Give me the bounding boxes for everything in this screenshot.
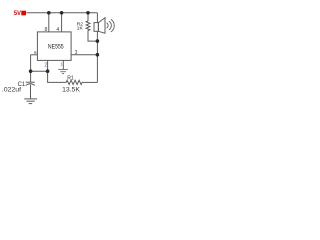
wire R2 top lead — [87, 13, 89, 21]
wire speaker top lead — [96, 13, 98, 23]
speaker LS1 cone — [98, 18, 105, 34]
node junction dot pin8 rail — [47, 11, 51, 15]
wire Vcc stub pin4 — [61, 13, 63, 32]
svg-text:8: 8 — [45, 27, 48, 33]
node junction dot pin4 rail — [60, 11, 64, 15]
wire left vertical pin6 to C1 — [30, 55, 32, 82]
node junction dot pin2 tie — [46, 69, 50, 73]
node junction dot R2 rail — [86, 11, 90, 15]
wire pin6 stub — [31, 54, 38, 56]
wire pin2 down to R1 — [48, 71, 67, 82]
wire R1 right lead — [82, 81, 97, 83]
svg-text:1K: 1K — [77, 25, 84, 31]
power 5V terminal square — [21, 11, 26, 16]
node junction dot pin3/speaker — [96, 53, 100, 57]
wire pin2 stub — [47, 60, 49, 71]
svg-text:.022uf: .022uf — [2, 88, 22, 94]
node junction dot R2/speaker — [96, 39, 100, 43]
ground pin1 bar1 — [58, 69, 68, 71]
capacitor C1 curved plate — [26, 84, 35, 86]
wire 5V rail — [26, 12, 97, 14]
ground pin1 bar3 — [62, 73, 64, 75]
resistor R1 — [66, 80, 82, 84]
svg-text:13.5K: 13.5K — [62, 86, 81, 93]
wire right vertical speaker to R1 — [96, 31, 98, 82]
speaker LS1 driver box — [94, 23, 98, 32]
ground C1 bar2 — [27, 100, 35, 102]
svg-text:5V: 5V — [14, 11, 21, 17]
resistor R2 — [86, 21, 90, 30]
wire R2 bottom lead — [88, 30, 97, 41]
wire pin1 stub — [62, 60, 64, 69]
wire pin2-pin6 tie — [31, 70, 48, 72]
wire C1 bottom lead — [30, 85, 32, 99]
svg-text:R1: R1 — [67, 76, 74, 82]
op-amp U1 NE555 box — [37, 32, 71, 61]
svg-text:6: 6 — [34, 50, 37, 55]
svg-text:1: 1 — [60, 62, 63, 67]
node junction dot pin6 tie — [29, 69, 33, 73]
speaker LS1 sound wave large — [111, 19, 114, 32]
capacitor C1 top plate — [26, 81, 35, 83]
svg-text:4: 4 — [56, 27, 59, 33]
ground C1 bar3 — [29, 103, 33, 105]
speaker LS1 sound wave small — [107, 23, 109, 28]
svg-text:3: 3 — [75, 50, 78, 56]
speaker LS1 sound wave mid — [109, 21, 111, 30]
wire Vcc stub pin8 — [48, 13, 50, 32]
svg-text:NE555: NE555 — [48, 44, 64, 51]
ground C1 bar1 — [24, 98, 37, 100]
svg-text:2: 2 — [44, 63, 47, 69]
wire pin3 stub to speaker net — [71, 54, 97, 56]
ground pin1 bar2 — [60, 71, 66, 73]
